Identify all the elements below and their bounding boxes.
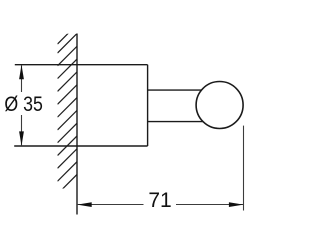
wall hatching (58, 25, 78, 195)
svg-text:Ø 35: Ø 35 (4, 93, 43, 116)
flange right edge (147, 65, 149, 146)
right extension line (243, 126, 245, 211)
dim71 right arrow (229, 202, 244, 207)
extension+outline line top (15, 64, 148, 66)
wall line (76, 34, 78, 215)
dia35 dimension line (21, 65, 23, 145)
extension+outline line bottom (14, 145, 147, 147)
dim71 line (78, 204, 244, 206)
svg-text:71: 71 (148, 189, 171, 212)
ball (196, 82, 243, 129)
dim71 left arrow (77, 202, 92, 207)
dia35 top arrow (19, 65, 24, 80)
stem lines (148, 90, 206, 122)
dia35 bottom arrow (19, 131, 24, 146)
